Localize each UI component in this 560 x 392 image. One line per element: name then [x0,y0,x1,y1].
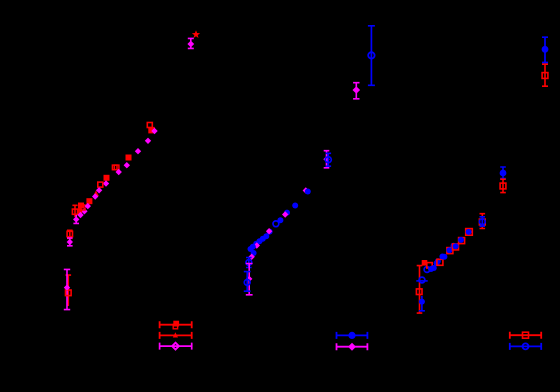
red open square [447,248,453,254]
error bar [368,26,375,86]
magenta diamond [77,212,83,218]
error bar [66,275,72,306]
blue filled circle [419,299,425,305]
legend entry red square [160,321,192,328]
red open square [466,229,473,236]
red filled square [422,260,428,266]
blue filled circle [248,246,254,252]
error bar [73,215,79,223]
magenta diamond [73,216,79,222]
magenta diamond [103,180,109,186]
blue open circle [479,219,485,225]
blue filled circle [250,244,256,250]
error bar [64,269,70,309]
error bar [419,296,425,311]
blue filled circle [441,254,447,260]
blue filled circle [451,243,457,249]
magenta diamond [145,138,151,144]
blue open circle [424,267,430,273]
legend entry blue circle [337,332,368,339]
red star [192,30,200,38]
red filled square [78,203,84,209]
blue filled circle [453,243,459,249]
magenta diamond [323,156,329,162]
red filled square [86,198,92,204]
magenta diamond [67,239,73,245]
error bar [324,151,330,168]
red open square [112,165,117,170]
magenta diamond [85,203,91,209]
blue open circle [368,52,374,58]
red open square [542,73,548,79]
blue filled circle [466,229,472,235]
red open square [173,324,177,328]
magenta diamond [246,276,252,282]
red open square [523,332,529,338]
blue open circle [523,343,529,349]
red filled square [77,209,82,214]
blue filled circle [284,210,290,216]
blue open circle [273,221,279,227]
magenta diamond [151,128,157,134]
error bar [353,83,359,99]
error bar [246,258,252,268]
red open square [147,123,152,128]
blue filled circle [292,203,298,209]
red open square [416,289,422,295]
magenta diamond [249,254,255,260]
magenta diamond [187,41,194,48]
magenta diamond [96,187,102,193]
error bar [480,217,486,226]
blue open circle [419,277,425,283]
blue open circle [244,280,250,286]
blue filled circle [251,250,257,256]
red open square [72,209,77,214]
error bar [67,230,73,238]
red open square [80,205,85,210]
blue filled circle [263,233,269,239]
blue filled circle [431,265,437,271]
error bar [246,264,253,295]
error bar [500,167,506,179]
error bar [500,179,506,192]
red open square [66,290,72,296]
legend entry blue open circle [510,343,541,350]
blue filled circle [267,229,273,235]
blue filled circle [434,260,440,266]
magenta diamond [92,193,98,199]
blue x-error bar [416,280,427,282]
red filled square [173,321,179,327]
red filled square [126,155,132,161]
red filled triangle [173,332,178,337]
blue filled circle [439,254,445,260]
red filled square [104,175,110,181]
blue filled circle [435,258,441,264]
blue filled circle [277,217,283,223]
blue filled circle [305,189,311,195]
blue filled circle [446,247,452,253]
red filled triangle [93,190,99,196]
red filled square [148,127,155,133]
red open square [479,219,485,225]
blue filled circle [260,236,266,242]
red open square [500,183,506,189]
magenta diamond [266,228,272,234]
magenta diamond [64,284,70,290]
blue filled circle [458,237,464,243]
error bar [417,266,423,314]
error bar [542,37,548,62]
legend entry red open square [510,332,541,339]
red open square [427,263,432,268]
magenta diamond [303,187,309,193]
error bar [542,64,548,86]
red open square [114,165,119,170]
magenta error bar [188,38,194,48]
magenta diamond [353,86,361,94]
blue open circle [325,157,331,163]
red open square [67,231,72,236]
red open square [453,244,459,250]
legend entry red triangle [160,332,192,339]
blue open circle [246,260,252,266]
error bar [480,214,486,229]
red open square [437,259,443,265]
blue filled circle [257,238,263,244]
magenta diamond [124,162,130,168]
error bar [326,153,332,166]
magenta diamond [282,211,288,217]
magenta diamond [116,169,122,175]
error bar [244,272,251,292]
magenta diamond [348,343,356,351]
magenta diamond [135,148,141,154]
blue filled circle [253,241,259,247]
magenta diamond [81,208,87,214]
legend entry magenta diamond [160,343,192,350]
blue filled circle [542,46,549,53]
blue filled circle [500,170,507,177]
blue filled circle [348,332,355,339]
legend entry magenta diamond [337,343,368,350]
magenta open diamond [172,343,179,350]
error bar [72,205,77,217]
error bar [67,238,73,246]
red open square [98,182,103,187]
red open square [459,238,465,244]
magenta diamond [254,242,260,248]
blue filled circle [428,266,434,272]
